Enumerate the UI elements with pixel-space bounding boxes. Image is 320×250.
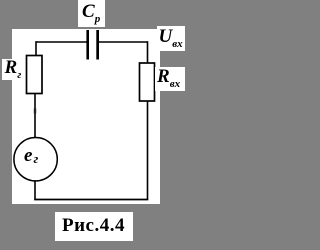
wire left vertical to resistor [35, 41, 37, 56]
wire top-right horizontal [99, 41, 148, 43]
canvas (white drawing area) [12, 29, 160, 204]
wire source to bottom [34, 181, 36, 200]
wire top-left horizontal [36, 41, 87, 43]
label R_g [2, 59, 23, 81]
resistor R_in body [140, 63, 155, 101]
wire right vertical bottom [147, 101, 149, 200]
junction blob on left wire [34, 109, 36, 114]
circuit drawing [0, 0, 186, 250]
source e_g circle [14, 138, 57, 181]
wire right vertical top [147, 41, 149, 63]
caption box Рис.4.4 [55, 212, 133, 241]
wire resistor to source [34, 94, 36, 138]
label e_g (inside source circle) [24, 146, 37, 165]
label U_in [157, 26, 185, 51]
label C_p [78, 0, 105, 27]
resistor R_g body [27, 56, 43, 94]
label R_in [155, 67, 185, 91]
wire bottom horizontal [34, 199, 148, 201]
capacitor C_p plates [86, 30, 89, 60]
